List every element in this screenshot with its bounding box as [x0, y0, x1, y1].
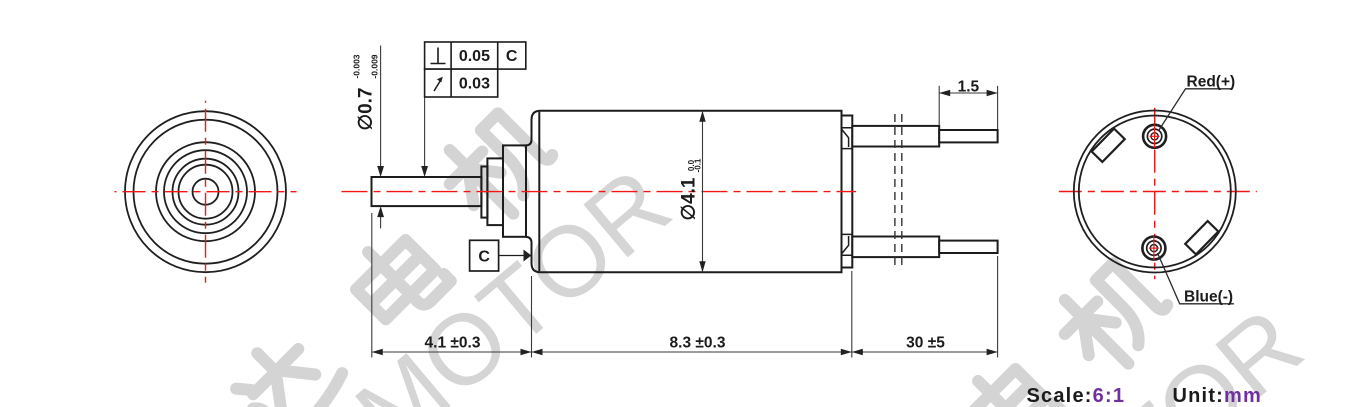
wire bottom thick [852, 237, 939, 258]
cap notch bottom [842, 234, 853, 255]
dim 1.5 ext lines [938, 86, 940, 125]
svg-text:∅0.7: ∅0.7 [356, 88, 377, 131]
front view circle r72 [134, 120, 278, 264]
svg-text:0.03: 0.03 [459, 76, 490, 93]
svg-text:8.3 ±0.3: 8.3 ±0.3 [670, 335, 726, 352]
rear view vertical centerline [1154, 104, 1156, 279]
wire top thin [939, 130, 997, 142]
watermark char da tile1 [223, 321, 349, 407]
terminal top [1143, 125, 1166, 148]
svg-text:-0.1: -0.1 [694, 158, 703, 172]
svg-text:Blue(-): Blue(-) [1184, 289, 1233, 306]
rear inner circle [1079, 116, 1231, 268]
front view circle r41.5 [164, 150, 247, 233]
arrow dia0.7 down [377, 166, 384, 177]
watermark char ji tile1 [433, 101, 562, 230]
svg-text:4.1 ±0.3: 4.1 ±0.3 [425, 335, 481, 352]
front view horizontal centerline [115, 191, 297, 193]
side view centerline [342, 191, 857, 193]
svg-text:Scale:6:1: Scale:6:1 [1027, 385, 1126, 407]
terminal red marks [1149, 125, 1160, 261]
collar [481, 167, 487, 218]
watermark char dian tile2 [953, 354, 1060, 407]
front view circle r80.5 [125, 111, 286, 272]
leader Red(+) [1159, 89, 1232, 131]
datum triangle [524, 250, 532, 262]
leader Blue(-) [1158, 253, 1234, 304]
svg-text:Unit:mm: Unit:mm [1173, 385, 1263, 407]
motor body outline [526, 111, 842, 273]
arrowheads [372, 90, 998, 355]
svg-text:0.05: 0.05 [459, 48, 490, 65]
perpendicularity symbol [431, 48, 446, 64]
datum C box [470, 240, 499, 271]
dia0.7 leader above [380, 46, 382, 171]
arrow dia0.7 up [377, 206, 384, 217]
tab lower-right [1185, 221, 1218, 254]
arrow frame leader down [421, 166, 428, 177]
dia0.7 leader below [380, 213, 382, 229]
front view vertical centerline [205, 101, 207, 283]
runout symbol [434, 81, 441, 92]
svg-text:C: C [506, 48, 518, 65]
svg-text:C: C [478, 249, 490, 266]
svg-text:30 ±5: 30 ±5 [906, 335, 945, 352]
bottom ext lines [371, 213, 373, 358]
svg-text:Red(+): Red(+) [1187, 74, 1236, 91]
cap notch top [842, 128, 853, 149]
end bell seam [538, 112, 540, 272]
tab upper-left [1092, 129, 1125, 162]
watermark char ji tile2 [1048, 251, 1177, 380]
dim 1.5 line [939, 92, 997, 94]
arrows 1.5 [939, 90, 950, 96]
front view circle r13 shaft [193, 179, 219, 205]
arrows bottom dims [372, 349, 383, 355]
wire break lines [895, 114, 902, 269]
dia4.1 dim line [702, 111, 704, 273]
bottom dim line [372, 351, 998, 353]
svg-text:∅4.1: ∅4.1 [679, 177, 700, 220]
wire top thick [852, 126, 939, 147]
svg-text:-0.003: -0.003 [352, 54, 362, 78]
front view circle r49.5 [156, 142, 255, 241]
rear cap [842, 116, 853, 268]
svg-text:1.5: 1.5 [958, 79, 980, 96]
rear view horizontal centerline [1053, 191, 1257, 193]
frame perpendicularity [425, 42, 526, 69]
bearing step [487, 158, 503, 225]
datum leader [499, 255, 524, 257]
rear outer circle [1074, 111, 1236, 273]
hub [503, 145, 526, 236]
frame runout [425, 69, 498, 97]
wire bottom thin [939, 241, 997, 253]
svg-text:-0.009: -0.009 [370, 54, 380, 78]
arrows dia4.1 [699, 111, 705, 122]
frame leader [424, 97, 426, 171]
front view circle r33 [173, 159, 239, 225]
shaft [372, 177, 482, 206]
watermark char dian tile1 [343, 225, 450, 332]
terminal bottom [1142, 237, 1165, 260]
front view circle r27 [179, 165, 233, 219]
